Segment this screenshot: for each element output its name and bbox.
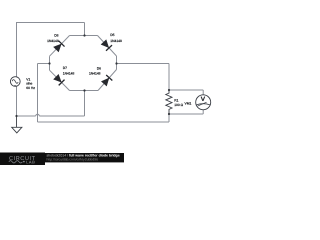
junction node at bridge right bbox=[115, 62, 117, 64]
wire top horizontal V1+ to bridge top node bbox=[16, 22, 85, 24]
wire V1- to bridge bottom: left part with hop bbox=[17, 115, 36, 117]
ground bbox=[12, 116, 22, 133]
wire bridge bottom stub bbox=[84, 91, 86, 117]
svg-text:1N4148: 1N4148 bbox=[47, 39, 59, 43]
wire bridge top segment bbox=[70, 35, 98, 37]
D7 labels bbox=[63, 66, 75, 76]
wire bridge right segment bbox=[116, 56, 118, 70]
resistor R1 bbox=[166, 90, 172, 114]
wire V1- to bridge bottom: right part bbox=[39, 115, 84, 117]
VM1 letter V bbox=[201, 97, 205, 101]
svg-text:D8: D8 bbox=[54, 33, 58, 37]
svg-text:http://circuitlab.com/c/rkty2u: http://circuitlab.com/c/rkty2ubbd96 bbox=[47, 158, 99, 162]
D8 labels bbox=[47, 33, 59, 42]
svg-text:D7: D7 bbox=[63, 66, 67, 70]
svg-text:VM1: VM1 bbox=[185, 101, 192, 105]
svg-text:1N4148: 1N4148 bbox=[63, 72, 75, 76]
wire diagonal for diode D7 (left node to bottom node) bbox=[50, 70, 70, 90]
diode D5 (top node -> right node) bbox=[101, 39, 112, 50]
voltmeter VM1 bbox=[196, 95, 211, 110]
wire right node lead to R1 bbox=[117, 63, 170, 65]
watermark text bar bbox=[45, 153, 124, 162]
wire hop over vertical wire bbox=[36, 114, 40, 116]
svg-text:LAB: LAB bbox=[26, 159, 35, 164]
wire diagonal for diode D6 (bottom node to right node) bbox=[98, 70, 117, 91]
wire left node lead bbox=[38, 63, 50, 65]
wire voltmeter bottom to R1 bottom node bbox=[169, 113, 203, 115]
svg-text:V1: V1 bbox=[26, 77, 30, 81]
wire bridge left segment bbox=[49, 56, 51, 70]
junction node at bridge top bbox=[83, 34, 85, 36]
voltage source V1 bbox=[10, 77, 20, 87]
diode D8 (left node -> top node) bbox=[53, 41, 64, 52]
wire V1 top lead vertical bbox=[16, 23, 18, 77]
wire voltmeter bottom stub bbox=[202, 110, 204, 114]
wire bottom horizontal to R1 bottom bbox=[38, 121, 170, 123]
wire diagonal for diode D5 (top node to right node) bbox=[98, 36, 117, 57]
svg-text:D5: D5 bbox=[110, 33, 114, 37]
wire diagonal for diode D8 (left node to top node) bbox=[50, 36, 70, 57]
wire top stub down to bridge top node bbox=[84, 23, 86, 36]
wire bridge bottom segment bbox=[70, 90, 99, 92]
R1 labels bbox=[174, 99, 183, 107]
wire R1 top node to voltmeter top bbox=[169, 89, 203, 91]
diode D6 (bottom node -> right node) bbox=[101, 75, 112, 86]
svg-text:D6: D6 bbox=[97, 66, 101, 70]
svg-text:60 Hz: 60 Hz bbox=[26, 86, 35, 90]
wire voltmeter top stub bbox=[202, 90, 204, 95]
junction node at bridge bottom bbox=[83, 89, 85, 91]
svg-text:100 Ω: 100 Ω bbox=[174, 103, 183, 107]
wire left node vertical down bbox=[37, 64, 39, 123]
junction node at bridge left bbox=[48, 62, 50, 64]
V1 labels bbox=[26, 77, 35, 90]
junction node at R1 bottom bbox=[168, 113, 170, 115]
D5 labels bbox=[110, 33, 122, 43]
junction node at R1 top bbox=[168, 89, 170, 91]
svg-text:1N4148: 1N4148 bbox=[89, 71, 101, 75]
CircuitLab logo box bbox=[0, 153, 45, 166]
svg-text:1N4148: 1N4148 bbox=[110, 39, 122, 43]
wire V1 bottom lead to ground junction bbox=[16, 86, 18, 116]
diode D7 (left node -> bottom node) bbox=[53, 74, 64, 85]
wire up to R1 bottom node bbox=[168, 114, 170, 122]
D6 labels bbox=[89, 66, 101, 75]
junction node at V1 minus / ground bbox=[15, 115, 17, 117]
wire down to R1 top node bbox=[168, 64, 170, 91]
